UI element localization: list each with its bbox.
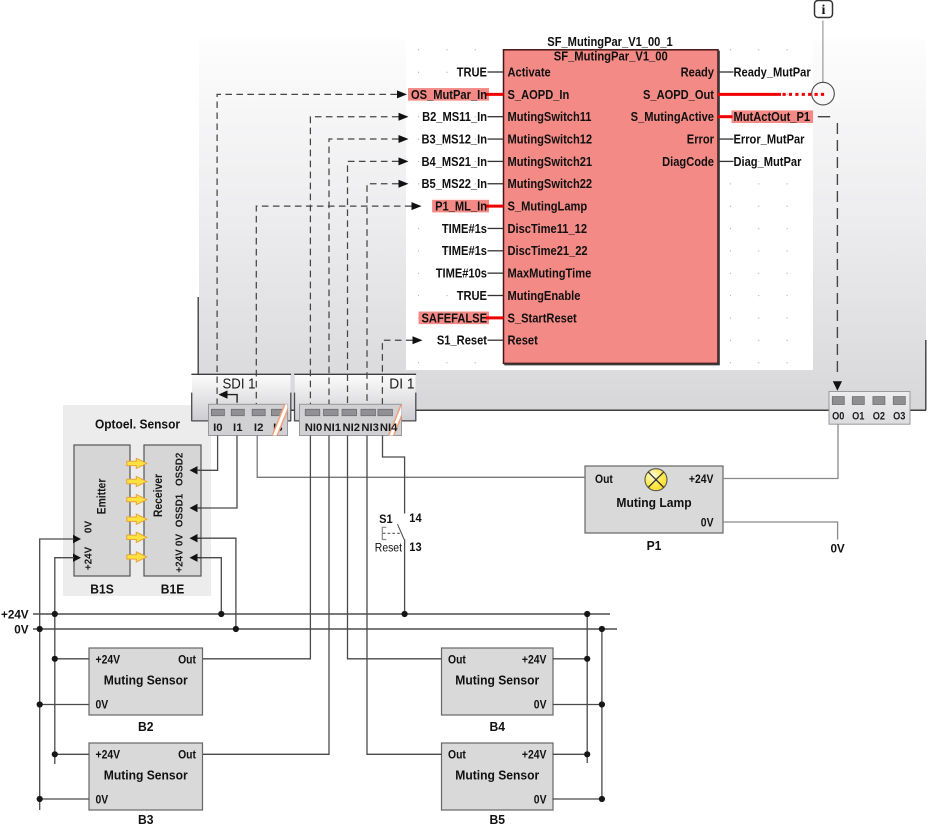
svg-text:13: 13: [409, 540, 422, 554]
svg-text:SAFEFALSE: SAFEFALSE: [422, 310, 488, 325]
svg-text:O3: O3: [893, 410, 905, 422]
svg-text:SF_MutingPar_V1_00_1: SF_MutingPar_V1_00_1: [547, 34, 672, 49]
svg-text:I0: I0: [213, 422, 223, 434]
svg-text:I1: I1: [233, 422, 243, 434]
svg-text:+24V: +24V: [689, 474, 714, 486]
svg-text:P1_ML_In: P1_ML_In: [435, 199, 487, 214]
svg-text:B2: B2: [138, 719, 154, 734]
svg-text:+24V: +24V: [96, 654, 121, 666]
svg-text:B5: B5: [490, 812, 506, 826]
svg-text:MutingSwitch21: MutingSwitch21: [508, 154, 593, 169]
svg-text:0V: 0V: [96, 795, 109, 807]
svg-text:B4: B4: [490, 719, 506, 734]
svg-text:i: i: [822, 3, 826, 18]
svg-text:0V: 0V: [14, 622, 28, 636]
svg-text:MutingSwitch12: MutingSwitch12: [508, 131, 593, 146]
svg-text:+24V: +24V: [522, 749, 547, 761]
svg-text:DI 1: DI 1: [389, 376, 414, 393]
svg-text:Ready: Ready: [681, 64, 715, 79]
svg-text:Diag_MutPar: Diag_MutPar: [734, 154, 802, 169]
svg-text:+24V: +24V: [82, 547, 94, 570]
svg-text:TRUE: TRUE: [457, 64, 487, 79]
svg-text:O1: O1: [852, 410, 864, 422]
svg-text:Muting Sensor: Muting Sensor: [104, 768, 188, 783]
svg-text:MutingSwitch11: MutingSwitch11: [508, 109, 592, 124]
svg-text:NI3: NI3: [361, 422, 379, 434]
svg-text:S1: S1: [379, 512, 393, 526]
svg-text:Error_MutPar: Error_MutPar: [734, 131, 805, 146]
svg-text:0V: 0V: [534, 700, 547, 712]
svg-text:0V: 0V: [82, 521, 94, 533]
svg-text:14: 14: [409, 511, 422, 525]
svg-text:+24V: +24V: [174, 549, 186, 572]
svg-text:B2_MS11_In: B2_MS11_In: [422, 109, 487, 124]
svg-text:Out: Out: [178, 749, 196, 761]
svg-text:B4_MS21_In: B4_MS21_In: [422, 154, 488, 169]
svg-text:OSSD1: OSSD1: [174, 494, 186, 528]
svg-text:0V: 0V: [174, 534, 186, 546]
svg-text:Muting Sensor: Muting Sensor: [455, 768, 539, 783]
svg-text:TIME#1s: TIME#1s: [442, 243, 487, 258]
svg-text:NI1: NI1: [324, 422, 342, 434]
svg-text:O0: O0: [832, 410, 844, 422]
svg-text:S_MutingActive: S_MutingActive: [631, 109, 714, 124]
svg-text:OSSD2: OSSD2: [174, 452, 186, 486]
svg-text:NI0: NI0: [305, 422, 323, 434]
svg-text:S1_Reset: S1_Reset: [437, 333, 488, 348]
svg-text:Out: Out: [448, 749, 466, 761]
svg-text:Reset: Reset: [508, 333, 539, 348]
svg-text:B1S: B1S: [90, 582, 114, 597]
svg-text:TRUE: TRUE: [457, 288, 487, 303]
svg-text:+24V: +24V: [1, 607, 29, 621]
svg-text:SDI 1: SDI 1: [223, 376, 256, 393]
svg-text:Out: Out: [178, 654, 196, 666]
svg-text:Muting Sensor: Muting Sensor: [104, 673, 188, 688]
svg-text:0V: 0V: [701, 517, 714, 529]
svg-text:B3_MS12_In: B3_MS12_In: [422, 131, 488, 146]
svg-text:Emitter: Emitter: [97, 478, 109, 514]
svg-text:B5_MS22_In: B5_MS22_In: [422, 176, 488, 191]
svg-text:NI2: NI2: [343, 422, 361, 434]
svg-text:Ready_MutPar: Ready_MutPar: [734, 64, 811, 79]
svg-text:DiagCode: DiagCode: [662, 154, 714, 169]
svg-text:Optoel. Sensor: Optoel. Sensor: [95, 416, 180, 431]
svg-text:Activate: Activate: [508, 64, 551, 79]
svg-text:TIME#1s: TIME#1s: [442, 221, 487, 236]
svg-text:MutActOut_P1: MutActOut_P1: [734, 109, 811, 124]
svg-text:O2: O2: [873, 410, 885, 422]
svg-text:Receiver: Receiver: [153, 473, 165, 517]
svg-text:0V: 0V: [534, 795, 547, 807]
svg-text:DiscTime11_12: DiscTime11_12: [508, 221, 588, 236]
svg-text:TIME#10s: TIME#10s: [436, 266, 487, 281]
svg-text:Out: Out: [448, 654, 466, 666]
svg-text:SF_MutingPar_V1_00: SF_MutingPar_V1_00: [554, 48, 668, 63]
svg-text:OS_MutPar_In: OS_MutPar_In: [411, 87, 487, 102]
svg-text:MaxMutingTime: MaxMutingTime: [508, 266, 592, 281]
svg-text:MutingEnable: MutingEnable: [508, 288, 581, 303]
svg-text:Muting Lamp: Muting Lamp: [616, 495, 691, 510]
svg-text:P1: P1: [647, 538, 662, 553]
svg-text:+24V: +24V: [96, 749, 121, 761]
svg-text:Out: Out: [595, 474, 613, 486]
svg-text:NI4: NI4: [380, 422, 398, 434]
svg-text:B3: B3: [138, 812, 154, 826]
svg-text:DiscTime21_22: DiscTime21_22: [508, 243, 588, 258]
svg-text:Error: Error: [687, 131, 714, 146]
svg-text:S_StartReset: S_StartReset: [508, 310, 578, 325]
svg-text:+24V: +24V: [522, 654, 547, 666]
svg-text:S_AOPD_Out: S_AOPD_Out: [643, 87, 715, 102]
svg-text:Reset: Reset: [375, 543, 403, 555]
svg-text:MutingSwitch22: MutingSwitch22: [508, 176, 593, 191]
svg-text:0V: 0V: [830, 541, 844, 555]
svg-text:S_AOPD_In: S_AOPD_In: [508, 87, 570, 102]
svg-text:S_MutingLamp: S_MutingLamp: [508, 199, 588, 214]
svg-text:0V: 0V: [96, 700, 109, 712]
svg-text:Muting Sensor: Muting Sensor: [455, 673, 539, 688]
svg-text:I2: I2: [254, 422, 264, 434]
svg-text:B1E: B1E: [161, 582, 185, 597]
